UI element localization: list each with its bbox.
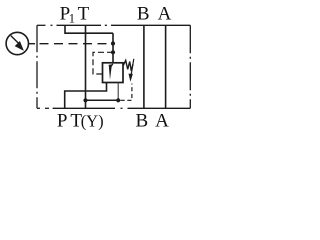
spring [123,60,133,71]
T branch to drain [86,99,119,101]
valve arrow (flow path) [111,64,113,67]
T line (through) [85,25,87,108]
valve drain stub [117,83,119,101]
node on T line [83,98,87,102]
svg-text:B: B [136,110,149,131]
pilot line (dashed) [93,52,113,74]
enclosure boundary (dash-dot rectangle) [37,25,190,108]
svg-text:1: 1 [69,11,75,25]
svg-text:B: B [137,3,150,24]
node drain junction [116,98,120,102]
feed line into valve [112,33,114,63]
svg-text:T: T [78,3,90,24]
B line (through) [143,25,145,108]
gauge measuring line (dashed) [40,43,113,45]
gauge needle [11,36,19,44]
node: gauge tap [111,41,115,45]
pressure gauge [6,32,28,54]
gauge stub [29,43,36,45]
spring chamber drain (dashed) [121,84,132,101]
node: pilot tap [111,50,115,54]
A line (through) [165,25,167,108]
svg-text:A: A [155,110,169,131]
P1 port line [65,25,113,33]
svg-text:(Y): (Y) [81,112,104,131]
spring adjust arrow [131,59,134,75]
P bottom port line [65,83,107,109]
svg-text:P: P [57,110,68,131]
valve U1 box [103,63,124,83]
svg-text:A: A [158,3,172,24]
